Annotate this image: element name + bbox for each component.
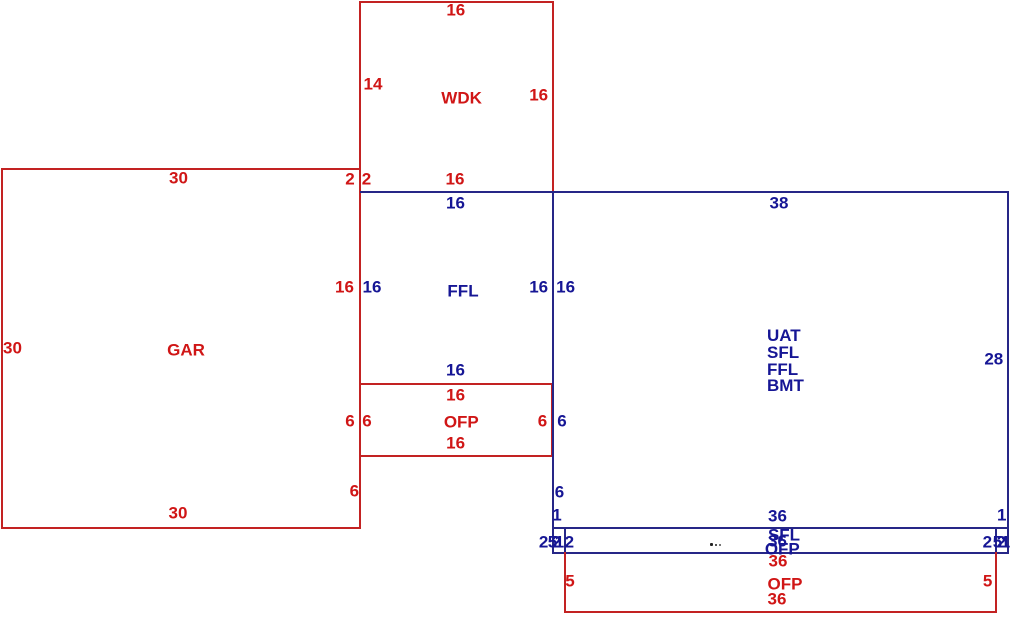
label cluster band left: 1 xyxy=(555,533,564,550)
wall: OFP (center) right (6) xyxy=(551,383,553,457)
wall: WDK top (16) xyxy=(359,1,553,3)
label: 2 GAR right top seg xyxy=(345,171,354,188)
label: 16 FFL bottom xyxy=(446,361,465,378)
label: 36 blue box bottom xyxy=(768,507,787,524)
label cluster band right: 2 xyxy=(983,533,992,550)
small dots artifact in band xyxy=(710,543,713,546)
label: 16 WDK right xyxy=(529,87,548,104)
room name: SFL band xyxy=(768,527,800,544)
label: 16 FFL right xyxy=(529,279,548,296)
wall: bottom OFP left (5) xyxy=(564,552,566,613)
wall: blue area left vertical (16+6+6+2) xyxy=(552,191,554,553)
room name: OFP bottom xyxy=(768,575,803,592)
wall: GAR bottom (30) xyxy=(1,527,362,529)
wall: band notch right vertical (1) xyxy=(995,527,997,553)
label: 16 GAR right mid xyxy=(335,279,354,296)
wall: bottom OFP bottom (36) xyxy=(564,611,997,613)
label: 16 WDK top xyxy=(446,1,465,18)
label: 38 blue area top xyxy=(770,195,789,212)
label: 36 bottom OFP top xyxy=(769,553,788,570)
room names: UAT SFL FFL BMT stack xyxy=(767,328,804,395)
label cluster band right: 5 xyxy=(993,533,1002,550)
wall: WDK/FFL/OFP left + GAR right vertical xyxy=(359,1,361,528)
room name: FFL xyxy=(447,282,478,299)
label: 16 blue area left xyxy=(556,279,575,296)
wall: blue big box bottom (1+36+1) xyxy=(552,527,1009,529)
wall: SFL/OFP band bottom (36) xyxy=(552,552,1009,554)
label cluster band left: 5 xyxy=(548,533,557,550)
label cluster band right: 1 xyxy=(1001,533,1010,550)
label: 14 WDK left xyxy=(364,76,383,93)
label: 16 WDK bottom xyxy=(446,171,465,188)
wall: GAR top (30) xyxy=(1,168,362,170)
wall: bottom OFP right (5) xyxy=(995,552,997,613)
label: 30 GAR top xyxy=(169,170,188,187)
label: 6 blue area left bottom seg xyxy=(555,483,564,500)
wall: blue area right vertical (28+2) xyxy=(1007,191,1009,553)
label: 5 bottom OFP right xyxy=(983,573,992,590)
label cluster band left: 2 xyxy=(539,533,548,550)
label: 5 bottom OFP left xyxy=(565,573,574,590)
room name: OFP center xyxy=(444,413,479,430)
room name: GAR xyxy=(167,342,205,359)
label: 30 GAR left xyxy=(3,339,22,356)
wall: GAR left (30) xyxy=(1,168,3,528)
label: 6 GAR right seg xyxy=(345,413,354,430)
label: 6 GAR right bottom seg xyxy=(350,482,359,499)
label: 6 OFP left xyxy=(362,413,371,430)
label cluster band left: 2 xyxy=(552,533,561,550)
label: 36 band top xyxy=(768,532,787,549)
label: 36 bottom OFP bottom xyxy=(768,590,787,607)
label: 6 OFP right xyxy=(538,413,547,430)
label: 28 blue area right xyxy=(984,351,1003,368)
label: 2 WDK left bottom seg xyxy=(362,171,371,188)
label: 16 OFP bottom xyxy=(446,435,465,452)
label: 6 blue area left seg xyxy=(557,413,566,430)
wall: WDK right (16) xyxy=(552,1,554,194)
label: 1 blue box bottom left seg xyxy=(552,507,561,524)
label: 1 blue box bottom right seg xyxy=(997,507,1006,524)
label: 30 GAR bottom xyxy=(169,505,188,522)
label: 16 OFP top xyxy=(446,387,465,404)
label: 16 FFL top xyxy=(446,195,465,212)
label cluster band right: 2 xyxy=(997,533,1006,550)
label: 16 FFL left xyxy=(363,279,382,296)
label cluster band left: 2 xyxy=(565,533,574,550)
wall: OFP (center) top (16) xyxy=(359,383,552,385)
room name: WDK xyxy=(441,90,482,107)
wall: OFP (center) bottom (16) xyxy=(359,455,552,457)
room name: OFP band xyxy=(765,541,800,558)
wall: blue area top (38) from FFL top across UAT/SFL/FFL/BMT xyxy=(360,191,1009,193)
wall: band notch left vertical (1) xyxy=(564,527,566,553)
